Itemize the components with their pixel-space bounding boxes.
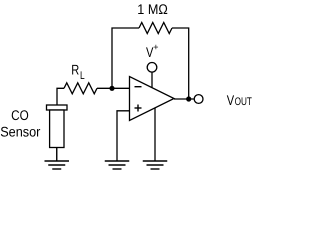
wire output from apex to terminal — [174, 98, 194, 100]
ground 1 sensor — [45, 148, 70, 170]
ground 3 negative supply — [143, 161, 168, 169]
V- lead wire down to ground — [154, 108, 156, 161]
svg-text:OUT: OUT — [235, 96, 252, 108]
plus input sign — [135, 107, 142, 109]
resistor RL zigzag — [64, 83, 97, 94]
output terminal circle — [194, 95, 203, 104]
CO sensor body — [50, 110, 64, 148]
svg-text:L: L — [80, 70, 85, 82]
ground 2 plus input — [105, 161, 130, 169]
wire feedback right horizontal and down to output node — [172, 28, 189, 99]
wire plus input to ground — [117, 111, 130, 161]
wire feedback left vertical from node A up and across to R1 — [112, 28, 139, 88]
op-amp U1 triangle — [130, 77, 175, 121]
svg-text:R: R — [71, 62, 79, 78]
svg-text:Sensor: Sensor — [0, 124, 41, 140]
svg-text:+: + — [153, 42, 158, 52]
svg-text:V: V — [227, 92, 235, 108]
resistor R1 1 MOhm zigzag — [139, 23, 172, 34]
V+ supply terminal circle — [147, 63, 157, 73]
svg-text:1 MΩ: 1 MΩ — [137, 1, 168, 17]
V+ lead wire — [151, 72, 153, 88]
CO sensor top cap — [47, 105, 68, 110]
node A junction dot — [109, 86, 114, 91]
output node junction dot — [186, 96, 191, 101]
svg-text:CO: CO — [11, 107, 29, 123]
wire RL to inverting input — [97, 87, 130, 89]
wire sensor to resistor RL — [57, 88, 64, 105]
minus input sign — [135, 86, 142, 88]
